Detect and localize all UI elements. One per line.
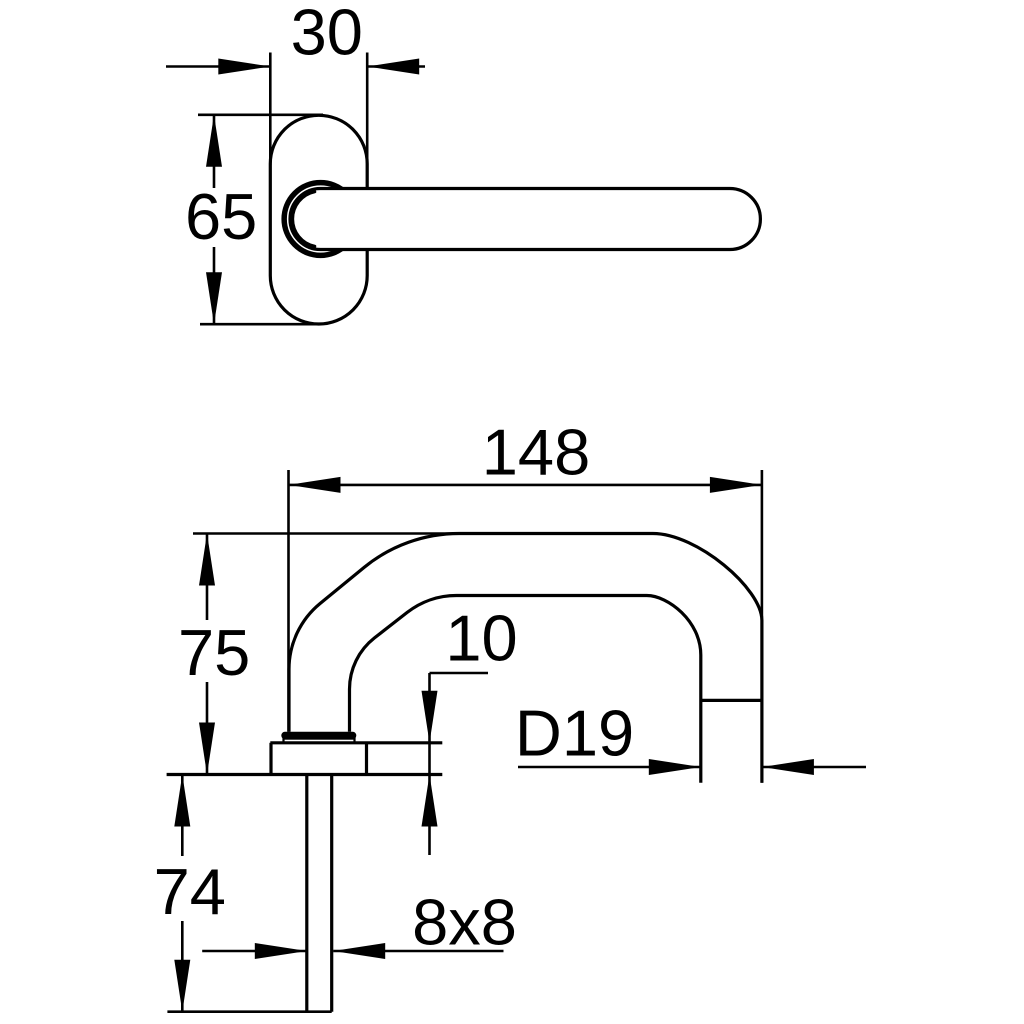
dim 75 line lower segment — [206, 682, 209, 775]
rosette plate right edge (side view) — [365, 743, 368, 775]
dim 148 extension line left — [287, 470, 290, 732]
lever handle bar (front view) — [290, 188, 760, 249]
dim 75 line upper segment — [206, 534, 209, 621]
neck flange circle outer (front view) — [283, 181, 358, 256]
dim 74 line lower segment — [181, 921, 184, 1012]
dim 30 line left segment — [166, 65, 270, 68]
svg-text:30: 30 — [291, 0, 363, 69]
dim 65 line lower segment — [213, 247, 216, 324]
dim 10 leader horizontal — [430, 672, 489, 675]
dim 65 extension line bottom — [200, 323, 321, 326]
neck flange circle inner (front view) — [285, 184, 355, 254]
neck collar ring (side view) — [284, 739, 355, 743]
dim 75 extension line top — [193, 532, 460, 535]
svg-text:D19: D19 — [515, 697, 634, 770]
dim 8x8 line left segment — [202, 950, 307, 953]
rosette plate left edge (side view) — [269, 743, 272, 775]
dim 65 arrow up — [206, 115, 222, 167]
svg-text:65: 65 — [185, 180, 257, 253]
handle outer outline (side view) — [289, 534, 762, 783]
dim 148 arrow left — [289, 477, 341, 493]
svg-text:8x8: 8x8 — [412, 886, 517, 959]
rosette plate bottom line / door line (side view) — [167, 773, 443, 776]
svg-text:10: 10 — [445, 602, 517, 675]
spindle left edge (side view) — [305, 775, 308, 1012]
dim 8x8 arrow left — [255, 943, 307, 959]
dim 8x8 line right segment — [333, 950, 503, 953]
dim 148 arrow right — [710, 477, 762, 493]
dim D19 arrow left — [649, 759, 701, 775]
grip end chamfer line (side view) — [701, 699, 762, 702]
dim 75 arrow down — [199, 723, 215, 775]
dim 65 line upper segment — [213, 115, 216, 188]
rosette oval (front view) — [270, 115, 367, 324]
dim D19 line right segment — [762, 766, 866, 769]
spindle right edge (side view) — [330, 775, 333, 1012]
lever root inner chamfer arc (front view) — [293, 192, 315, 247]
dim 148 extension line right — [761, 470, 764, 783]
dim 10 arrow down (onto plate top) — [422, 691, 438, 743]
dim 74 arrow down — [174, 960, 190, 1012]
dim 75 arrow up — [199, 534, 215, 586]
rosette plate top line (side view) — [270, 741, 442, 744]
dim D19 arrow right — [762, 759, 814, 775]
dim 65 arrow down — [206, 272, 222, 324]
neck collar band (side view) — [281, 732, 356, 739]
spindle bottom extension line — [167, 1010, 331, 1013]
dim 30 extension line left — [269, 53, 272, 166]
dim 30 line right segment — [367, 65, 425, 68]
dim 74 line upper segment — [181, 775, 184, 857]
dim 30 arrow right — [367, 59, 419, 75]
dim 30 arrow left — [218, 59, 270, 75]
dim 74 arrow up (onto door line) — [174, 775, 190, 827]
dim 10 leader vertical (continuous through plate) — [428, 673, 431, 855]
dim 65 extension line top — [198, 114, 323, 117]
dim D19 line left segment — [518, 766, 701, 769]
svg-text:75: 75 — [178, 616, 250, 689]
dim 30 extension line right — [366, 53, 369, 187]
svg-text:148: 148 — [482, 416, 590, 489]
dim 10 arrow up (onto plate bottom) — [422, 775, 438, 827]
handle inner outline (side view) — [350, 596, 701, 783]
dim 148 line — [289, 484, 762, 487]
svg-text:74: 74 — [154, 855, 226, 928]
dim 8x8 arrow right — [333, 943, 385, 959]
